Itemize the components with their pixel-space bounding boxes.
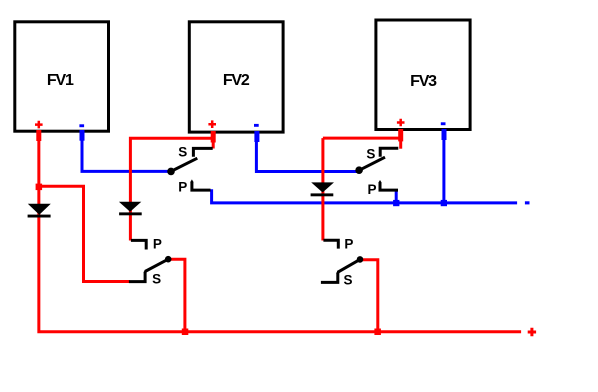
svg-text:FV3: FV3 [410,73,437,90]
svg-text:FV1: FV1 [47,72,74,89]
svg-text:S: S [366,146,375,161]
svg-text:P: P [367,182,376,197]
svg-text:P: P [178,180,187,195]
svg-text:S: S [178,144,187,159]
svg-text:P: P [344,236,353,251]
svg-text:P: P [153,236,162,251]
svg-text:FV2: FV2 [223,72,250,89]
svg-text:S: S [152,271,161,286]
svg-text:S: S [343,273,352,288]
